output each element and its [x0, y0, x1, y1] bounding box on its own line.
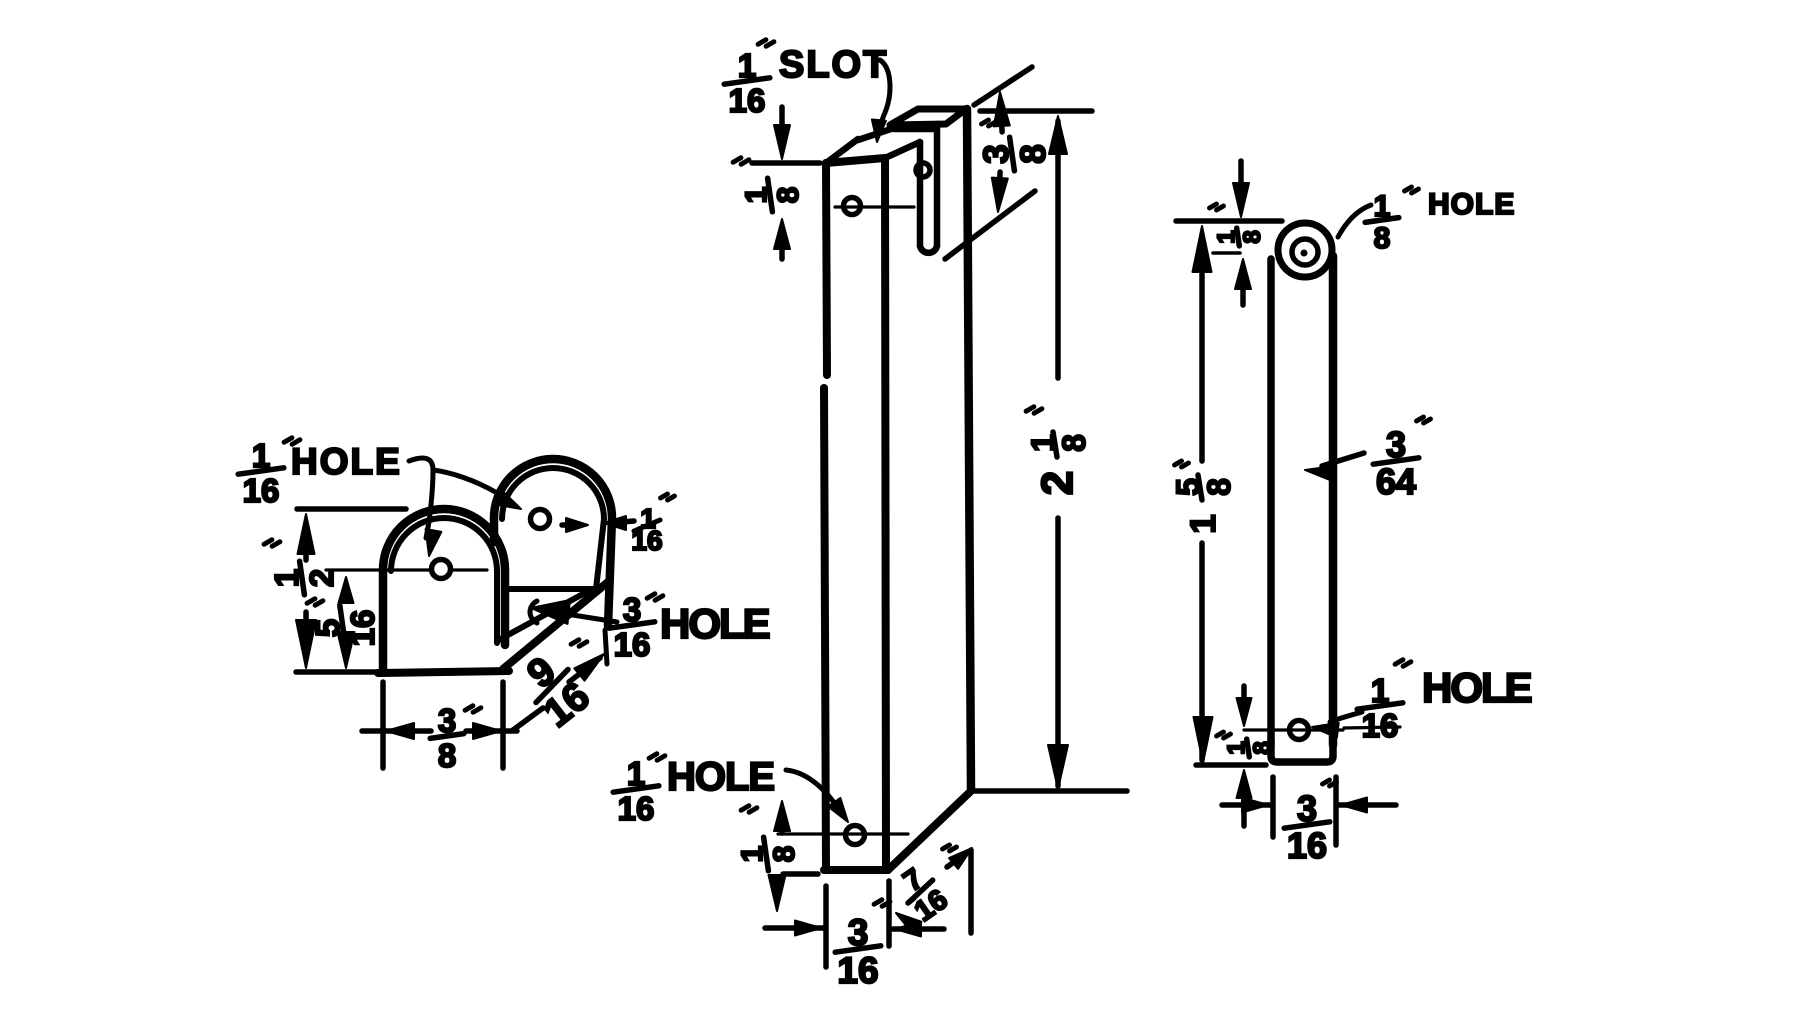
svg-text:8: 8 — [1201, 478, 1237, 496]
svg-text:HOLE: HOLE — [667, 755, 774, 799]
svg-text:8: 8 — [1014, 144, 1053, 163]
svg-text:1: 1 — [1184, 514, 1223, 533]
svg-text:HOLE: HOLE — [1422, 664, 1532, 711]
svg-text:2: 2 — [1033, 471, 1082, 495]
svg-text:HOLE: HOLE — [1428, 188, 1515, 221]
svg-text:HOLE: HOLE — [291, 441, 402, 482]
svg-text:8: 8 — [438, 737, 456, 774]
svg-text:8: 8 — [1056, 434, 1092, 452]
svg-text:8: 8 — [1249, 741, 1276, 754]
svg-text:64: 64 — [1376, 461, 1416, 502]
svg-text:SLOT: SLOT — [779, 44, 888, 86]
svg-text:HOLE: HOLE — [660, 600, 770, 647]
svg-text:8: 8 — [768, 846, 801, 863]
svg-text:16: 16 — [729, 82, 766, 119]
svg-text:16: 16 — [618, 790, 655, 827]
svg-text:16: 16 — [837, 950, 878, 991]
svg-text:8: 8 — [1374, 222, 1391, 255]
svg-text:8: 8 — [1239, 230, 1266, 243]
svg-text:16: 16 — [243, 472, 280, 509]
svg-text:8: 8 — [772, 187, 805, 204]
svg-text:16: 16 — [1287, 825, 1327, 866]
svg-text:16: 16 — [1362, 707, 1399, 744]
svg-text:16: 16 — [631, 525, 662, 556]
svg-text:16: 16 — [614, 626, 651, 663]
